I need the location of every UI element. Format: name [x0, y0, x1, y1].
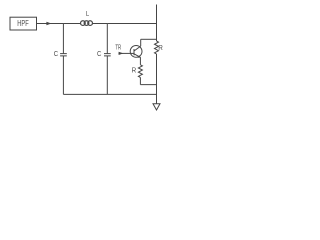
wire capacitor C2 to ground bus [106, 56, 108, 95]
V+ rail upper segment [156, 5, 158, 42]
resistor R1 (rail) zigzag [155, 41, 159, 54]
output down-arrow head [153, 104, 160, 110]
transistor TR base bar [133, 49, 135, 55]
base input wire of transistor TR [119, 52, 135, 54]
emitter wire below R2 [139, 77, 141, 84]
capacitor C1 plates [60, 54, 67, 56]
wire node B to V+ rail [107, 23, 156, 25]
svg-text:TR: TR [115, 44, 121, 51]
svg-text:C: C [97, 51, 101, 58]
signal-flow arrowhead on HPF output wire [46, 22, 51, 26]
svg-text:HPF: HPF [17, 18, 28, 28]
wire HPF output to node A [37, 23, 64, 25]
transistor TR collector stroke [134, 46, 141, 51]
node A drop wire to capacitor C1 [62, 24, 64, 54]
signal-flow arrowhead on base wire [119, 52, 124, 55]
node B drop wire to capacitor C2 [106, 24, 108, 54]
resistor R2 (emitter) zigzag [138, 65, 142, 78]
transistor TR emitter arrowhead [138, 55, 141, 58]
transistor TR body circle [130, 46, 142, 58]
HPF block U1 [10, 17, 37, 30]
wire capacitor C1 to ground bus [62, 56, 64, 95]
svg-text:L: L [86, 11, 89, 18]
svg-text:R: R [158, 45, 163, 52]
svg-text:C: C [54, 51, 58, 58]
collector wire to rail [141, 38, 157, 40]
ground bus wire (bottom) [63, 93, 156, 95]
wire node A to inductor [63, 23, 80, 25]
capacitor C2 plates [104, 54, 111, 56]
emitter wire to rail [140, 84, 156, 86]
emitter wire down [139, 57, 141, 65]
rail segment below R1 to ground bus [156, 54, 158, 104]
collector wire up [140, 39, 142, 46]
wire inductor to node B [92, 23, 107, 25]
svg-text:R: R [132, 68, 137, 75]
transistor TR emitter stroke [134, 54, 140, 58]
inductor L [81, 21, 93, 26]
